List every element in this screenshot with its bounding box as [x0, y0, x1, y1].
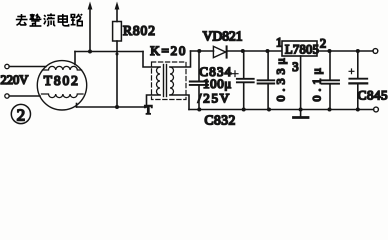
- wire: R802 bottom lead down to bottom rail (crosses top rail): [116, 41, 118, 107]
- svg-text:2: 2: [320, 37, 326, 51]
- node: 0.1u top junction: [328, 49, 332, 53]
- plus sign C845: [349, 69, 354, 74]
- svg-text:T: T: [145, 103, 153, 117]
- T802 primary winding (top coil): [43, 66, 82, 70]
- svg-text:K=20: K=20: [150, 43, 187, 58]
- node: 0.1u bottom junction: [328, 108, 332, 112]
- wire: top-left rail: [75, 51, 143, 53]
- svg-text:2: 2: [17, 105, 26, 124]
- transformer T core: [163, 65, 165, 97]
- wire: top rail (diode to regulator): [227, 50, 283, 52]
- node: junction R802 lead below top rail: [116, 53, 119, 56]
- node: C845 bottom junction: [356, 108, 360, 112]
- svg-text:R802: R802: [123, 23, 156, 38]
- node: 0.33u top junction: [266, 49, 270, 53]
- wire: 220V bottom lead: [9, 95, 40, 97]
- wire: top rail (regulator output section): [317, 50, 373, 52]
- svg-text:100μ: 100μ: [203, 76, 232, 91]
- svg-text:0.33μ: 0.33μ: [274, 54, 288, 101]
- capacitor 0.33u: [267, 51, 269, 79]
- terminal: output top: [373, 49, 378, 54]
- wire: rail left end down to T802: [74, 52, 76, 65]
- wire: secondary bottom lead down to ground rail: [170, 95, 189, 110]
- resistor R802: [113, 22, 122, 42]
- wire: ground rail: [189, 109, 374, 111]
- capacitor C845: [357, 51, 359, 78]
- 流: [44, 14, 56, 26]
- terminal: output bottom: [374, 107, 379, 112]
- svg-text:L7805: L7805: [285, 43, 319, 57]
- svg-text:220V: 220V: [1, 73, 29, 87]
- 电: [58, 14, 68, 26]
- wire: secondary top lead up to rectifier rail: [170, 51, 191, 67]
- T802 secondary winding (bottom coil): [42, 94, 84, 98]
- node: C834 top junction: [241, 49, 245, 53]
- 去: [16, 14, 28, 25]
- node: junction R802 lead on bottom rail: [115, 105, 119, 109]
- wire: bottom rail right end step up to transformer T primary bottom: [147, 95, 161, 107]
- wire: bottom rail left end up to T802: [76, 104, 78, 108]
- svg-text:C845: C845: [358, 87, 388, 102]
- terminal: 220V top: [5, 64, 9, 68]
- wire: R802 top lead with arrow: [116, 9, 118, 22]
- arrowhead left: [88, 2, 93, 10]
- wire: rail right end step down to transformer T primary top: [143, 52, 160, 68]
- transformer T primary coil: [157, 67, 161, 95]
- svg-text:T802: T802: [44, 73, 80, 88]
- capacitor C832: [198, 51, 200, 81]
- node: C834 bottom junction: [242, 108, 246, 112]
- node: pin3 ground junction: [299, 108, 303, 112]
- node: C832 bottom junction: [197, 108, 201, 112]
- wire: 220V top lead: [9, 66, 46, 68]
- plus sign C834: [232, 71, 238, 77]
- capacitor 0.1u: [329, 51, 331, 79]
- wire: bottom-left rail: [77, 106, 147, 108]
- node: junction arrow wire on top rail: [88, 50, 92, 54]
- wire: pin 3 down to ground rail: [300, 56, 302, 110]
- ground symbol: [300, 110, 302, 117]
- transformer T dashed box: [152, 62, 187, 100]
- regulator U: L7805: [282, 41, 317, 56]
- svg-text:VD821: VD821: [203, 28, 243, 43]
- transformer T secondary coil: [170, 67, 174, 95]
- node: C832 top junction: [197, 49, 201, 53]
- diode VD821: [213, 46, 225, 57]
- svg-text:3: 3: [292, 60, 298, 74]
- transformer T802 body: [37, 61, 86, 110]
- svg-text:C832: C832: [205, 112, 236, 127]
- node: 0.33u bottom junction: [267, 108, 271, 112]
- terminal: 220V bottom: [5, 94, 9, 98]
- figure number ②: [11, 104, 30, 123]
- svg-text:0.1μ: 0.1μ: [310, 64, 324, 101]
- svg-text:/25V: /25V: [198, 91, 231, 106]
- 整: [29, 14, 41, 26]
- wire: top rail (diode input section): [191, 50, 214, 52]
- arrowhead right: [115, 2, 120, 10]
- svg-text:1: 1: [276, 36, 282, 50]
- 路: [71, 14, 83, 26]
- wire: left vertical to rectifier with arrow: [89, 9, 91, 52]
- capacitor C834: [243, 51, 245, 78]
- node: C845 top junction: [356, 49, 360, 53]
- label 去整流电路 (to rectifier circuit): [16, 14, 82, 27]
